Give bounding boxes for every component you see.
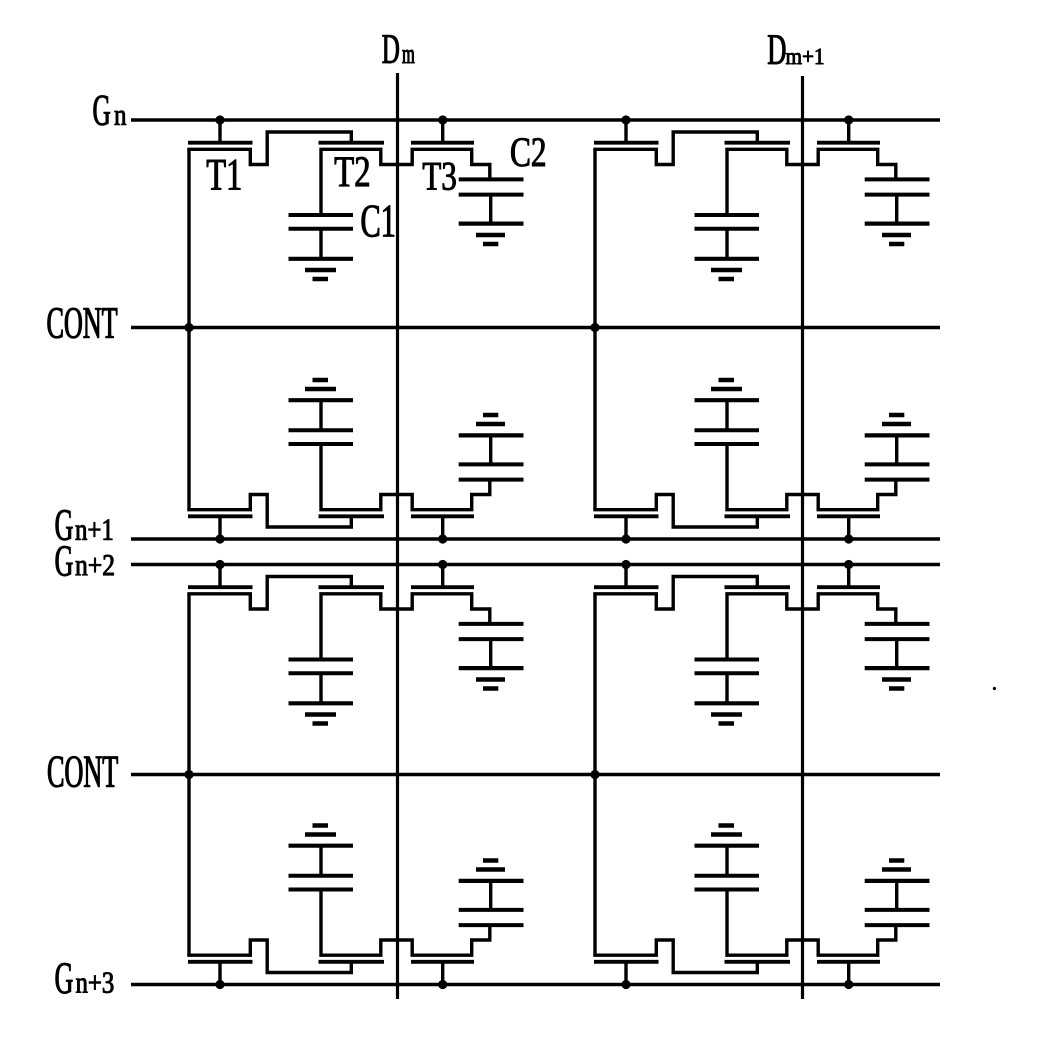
label C2: [511, 138, 545, 166]
gate line Gn+2: [131, 563, 940, 567]
control line CONT (upper): [131, 326, 940, 330]
label CONT upper: [48, 308, 118, 338]
gate line Gn: [131, 118, 940, 122]
gate line Gn+3: [131, 983, 940, 987]
label Dm : D: [382, 35, 398, 63]
label Gn : G: [94, 95, 110, 125]
node dot: col1 vertical on upper CONT: [184, 323, 193, 332]
pixel cell row1 col2: [593, 115, 929, 279]
control line CONT (lower): [131, 773, 940, 777]
pixel cell row2 col2 (mirrored on Gn+1): [593, 380, 929, 544]
label CONT lower: [48, 756, 118, 787]
data line Dm+1: [801, 76, 804, 999]
label T1: [207, 160, 240, 190]
wire: pixel storage bus vertical col1 rows1-2: [187, 149, 190, 510]
pixel cell row3 col1 (on Gn+2): [187, 560, 523, 724]
label Dm+1 : D: [768, 35, 785, 64]
label T3: [423, 163, 456, 190]
pixel cell row1 col1: [187, 115, 523, 279]
label Gn : n: [115, 111, 127, 125]
label Gn+1 : n+1: [76, 519, 113, 539]
stray ink speck: [993, 687, 996, 690]
label Dm+1 : m+1: [786, 49, 823, 64]
gate line Gn+1: [131, 537, 940, 541]
label T2: [335, 157, 369, 186]
node dot: col1 vertical on lower CONT: [184, 770, 193, 779]
label Gn+1 : G: [56, 510, 73, 540]
data line Dm: [396, 73, 399, 999]
wire: pixel storage bus vertical col2 rows1-2: [593, 149, 596, 510]
wire: pixel storage bus vertical col1 rows3-4: [187, 594, 190, 956]
wire: pixel storage bus vertical col2 rows3-4: [593, 594, 596, 956]
pixel cell row3 col2 (on Gn+2): [593, 560, 929, 724]
label Gn+2 : n+2: [76, 555, 114, 575]
pixel cell row2 col1 (mirrored on Gn+1): [187, 380, 523, 544]
node dot: col2 vertical on lower CONT: [590, 770, 599, 779]
pixel cell row4 col2 (mirrored on Gn+3): [593, 826, 929, 990]
label Gn+3 : G: [56, 963, 73, 993]
label Gn+3 : n+3: [76, 972, 113, 992]
label Gn+2 : G: [56, 546, 73, 576]
label C1: [362, 205, 394, 236]
label Dm : m: [402, 50, 414, 63]
node dot: col2 vertical on upper CONT: [590, 323, 599, 332]
pixel cell row4 col1 (mirrored on Gn+3): [187, 826, 523, 990]
